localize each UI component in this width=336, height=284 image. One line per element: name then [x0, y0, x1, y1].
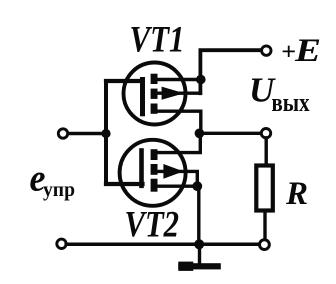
node VT2 source dot — [192, 181, 202, 191]
wire VT1 source stub — [157, 109, 201, 112]
wire VT1 substrate stub — [157, 91, 200, 94]
ground bar blob — [178, 262, 193, 271]
resistor R body — [256, 166, 273, 211]
node gate junction — [101, 129, 110, 138]
wire input to gate junction — [68, 132, 106, 135]
transistor VT1 gate bar — [140, 80, 145, 114]
svg-text:+: + — [281, 40, 296, 66]
svg-text:VT2: VT2 — [125, 205, 180, 246]
terminal e_upr lower — [57, 239, 66, 248]
ground stem — [198, 244, 201, 264]
wire VT2 gate lead — [106, 182, 143, 186]
transistor VT2 channel segment drain — [151, 149, 158, 160]
svg-text:R: R — [285, 176, 308, 212]
terminal +E — [262, 46, 271, 55]
transistor VT1 channel segment drain — [151, 74, 158, 84]
svg-text:вых: вых — [272, 88, 310, 117]
wire VT1 source to output node — [199, 111, 202, 131]
svg-text:VT1: VT1 — [130, 19, 185, 60]
transistor VT2 substrate arrow — [163, 164, 183, 179]
transistor VT1 channel segment substrate — [151, 89, 158, 99]
node output junction — [195, 129, 205, 139]
transistor VT1 channel segment source — [151, 104, 158, 114]
svg-text:E: E — [294, 33, 321, 69]
wire VT2 drain stub — [157, 133, 200, 152]
wire +E drop — [200, 50, 261, 93]
transistor VT2 envelope — [120, 140, 186, 206]
transistor VT2 gate bar — [139, 151, 144, 186]
wire VT2 substrate stub — [157, 171, 197, 186]
transistor VT2 channel segment substrate — [151, 164, 158, 175]
wire output terminal to resistor — [265, 138, 268, 164]
wire VT1 drain stub — [157, 78, 201, 81]
input terminal (e_upr upper) — [58, 129, 67, 138]
wire VT2 source stub — [157, 184, 197, 187]
transistor VT2 channel segment source — [151, 179, 158, 192]
wire bottom rail — [66, 242, 258, 246]
transistor VT1 envelope — [124, 63, 186, 125]
svg-text:упр: упр — [43, 179, 75, 201]
node VT1 drain dot — [196, 75, 206, 85]
wire VT1 gate lead — [106, 79, 143, 83]
transistor VT1 substrate arrow — [162, 87, 185, 100]
wire VT2 source to ground rail — [197, 186, 200, 244]
wire resistor to bottom terminal — [263, 213, 266, 239]
terminal U_vyh output — [261, 129, 270, 138]
wire output lead — [199, 132, 261, 135]
wire gate bus vertical — [104, 81, 108, 184]
terminal bottom right — [260, 240, 270, 250]
ground bar — [178, 263, 221, 269]
node rail junction — [194, 239, 204, 249]
